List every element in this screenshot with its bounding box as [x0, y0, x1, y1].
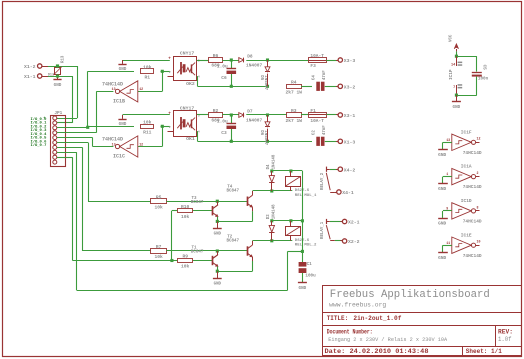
svg-text:D6: D6	[259, 130, 263, 135]
svg-text:13: 13	[112, 87, 116, 91]
svg-text:VCC: VCC	[449, 34, 453, 42]
svg-text:74HC14D: 74HC14D	[463, 184, 482, 190]
svg-text:1N4007: 1N4007	[246, 63, 263, 69]
svg-text:IC1D: IC1D	[461, 198, 472, 204]
svg-text:13: 13	[112, 142, 116, 146]
svg-text:+: +	[168, 57, 171, 62]
svg-text:7: 7	[453, 86, 455, 90]
svg-text:2k7 1W: 2k7 1W	[286, 118, 303, 124]
svg-text:X1-3: X1-3	[344, 140, 356, 146]
svg-text:www.freebus.org: www.freebus.org	[329, 302, 386, 309]
svg-text:GND: GND	[438, 152, 446, 158]
svg-text:14: 14	[451, 63, 455, 67]
svg-text:1N4007: 1N4007	[263, 75, 267, 90]
svg-text:R9: R9	[182, 254, 188, 260]
svg-text:BC847: BC847	[227, 240, 240, 244]
svg-text:C6: C6	[221, 75, 227, 81]
svg-text:D8: D8	[247, 54, 253, 60]
svg-text:10k: 10k	[154, 204, 163, 210]
svg-text:REV:: REV:	[498, 329, 513, 336]
svg-text:REL MOL_1: REL MOL_1	[295, 194, 317, 198]
svg-text:Sheet: 1/1: Sheet: 1/1	[466, 348, 502, 355]
svg-text:100u: 100u	[305, 273, 316, 278]
svg-text:BC847: BC847	[227, 190, 240, 194]
svg-text:C3: C3	[221, 130, 227, 136]
svg-text:100n: 100n	[478, 77, 489, 82]
svg-text:74HC14D: 74HC14D	[463, 253, 482, 259]
svg-text:10A-T: 10A-T	[310, 118, 324, 124]
svg-text:1N4148: 1N4148	[272, 204, 276, 219]
svg-text:11: 11	[446, 241, 450, 245]
svg-text:10k: 10k	[181, 264, 190, 270]
svg-text:X2-1: X2-1	[348, 220, 360, 226]
svg-text:13: 13	[446, 138, 450, 142]
svg-text:F3: F3	[310, 63, 316, 69]
svg-text:10A-T: 10A-T	[310, 53, 324, 59]
svg-text:R10: R10	[181, 204, 190, 210]
svg-text:GND: GND	[54, 83, 62, 88]
svg-text:10k: 10k	[181, 214, 190, 220]
svg-text:4: 4	[198, 130, 200, 133]
svg-text:X2-2: X2-2	[348, 239, 360, 245]
svg-text:2: 2	[477, 171, 479, 175]
svg-text:R5: R5	[156, 194, 162, 200]
svg-text:C1: C1	[307, 262, 313, 267]
svg-text:12: 12	[139, 87, 143, 91]
svg-text:1.0u: 1.0u	[217, 119, 228, 125]
svg-text:BC847: BC847	[191, 201, 204, 205]
svg-text:R4: R4	[291, 80, 297, 86]
svg-text:R7: R7	[156, 244, 162, 250]
svg-text:I/O_0.7: I/O_0.7	[30, 143, 47, 148]
svg-text:CNY17: CNY17	[180, 105, 195, 111]
svg-text:IC1P: IC1P	[449, 69, 454, 80]
svg-text:R1: R1	[145, 75, 151, 81]
svg-text:Eingang 2 x 230V / Relais 2: Eingang 2 x 230V / Relais 2 x 230V 10A	[328, 336, 447, 343]
svg-text:Date: 24.02.2010 01:43:48: Date: 24.02.2010 01:43:48	[325, 348, 429, 355]
svg-text:X1-1: X1-1	[24, 74, 36, 80]
svg-text:1N4148: 1N4148	[272, 154, 276, 169]
svg-text:C4: C4	[313, 75, 317, 80]
svg-text:X1-2: X1-2	[24, 64, 36, 70]
svg-text:2: 2	[169, 71, 171, 74]
svg-text:1N4007: 1N4007	[246, 118, 263, 124]
svg-text:C5: C5	[481, 65, 486, 71]
svg-text:2: 2	[169, 126, 171, 129]
svg-text:X4-2: X4-2	[344, 167, 356, 173]
svg-text:D13: D13	[48, 73, 54, 77]
svg-text:10k: 10k	[143, 120, 152, 126]
svg-text:F1: F1	[310, 108, 316, 114]
svg-text:CNY17: CNY17	[180, 50, 195, 56]
svg-text:TITLE:: TITLE:	[327, 315, 349, 322]
svg-text:D2: D2	[267, 214, 271, 219]
svg-text:1: 1	[446, 172, 448, 176]
svg-text:R3: R3	[291, 108, 297, 114]
svg-text:IC1B: IC1B	[113, 98, 125, 104]
svg-text:D4: D4	[267, 164, 271, 169]
svg-text:+: +	[168, 112, 171, 117]
svg-text:GND: GND	[453, 105, 461, 110]
svg-text:12: 12	[139, 142, 143, 146]
svg-text:X3-1: X3-1	[344, 113, 356, 119]
svg-text:C2: C2	[313, 130, 317, 135]
svg-text:X4-1: X4-1	[342, 190, 354, 196]
svg-text:47nF: 47nF	[323, 125, 327, 135]
svg-text:RELAY_2: RELAY_2	[321, 172, 325, 190]
svg-text:1N4007: 1N4007	[263, 130, 267, 145]
svg-text:GND: GND	[214, 233, 222, 237]
svg-text:X3-2: X3-2	[344, 85, 356, 91]
svg-text:JP1: JP1	[54, 111, 62, 116]
svg-text:1.0f: 1.0f	[498, 336, 512, 343]
svg-text:RELAY_1: RELAY_1	[321, 221, 325, 239]
svg-text:R2: R2	[213, 108, 219, 114]
svg-text:10k: 10k	[143, 65, 152, 71]
svg-text:IC1F: IC1F	[461, 129, 472, 135]
svg-text:12: 12	[477, 137, 481, 141]
svg-text:10k: 10k	[154, 254, 163, 260]
svg-text:GND: GND	[438, 186, 446, 192]
svg-text:OK1: OK1	[186, 136, 195, 142]
svg-text:47nF: 47nF	[323, 70, 327, 80]
svg-text:IC1A: IC1A	[461, 164, 472, 170]
svg-text:D5: D5	[259, 75, 263, 80]
svg-text:R13: R13	[62, 55, 66, 63]
svg-text:R11: R11	[143, 130, 152, 136]
svg-text:X3-3: X3-3	[344, 58, 356, 64]
svg-text:OK2: OK2	[186, 81, 195, 87]
svg-text:2in-2out_1.0f: 2in-2out_1.0f	[353, 315, 401, 322]
svg-text:IC1C: IC1C	[113, 153, 125, 159]
svg-text:R6: R6	[213, 53, 219, 59]
svg-text:2k7 1W: 2k7 1W	[286, 90, 303, 96]
svg-text:IC1E: IC1E	[461, 232, 472, 238]
svg-text:GND: GND	[214, 282, 222, 286]
svg-text:BC847: BC847	[191, 251, 204, 255]
svg-text:8: 8	[477, 205, 479, 209]
svg-text:Freebus Applikationsboard: Freebus Applikationsboard	[330, 289, 490, 301]
svg-text:GND: GND	[438, 255, 446, 261]
svg-text:1.0u: 1.0u	[217, 64, 228, 70]
svg-text:D7: D7	[247, 109, 253, 115]
svg-text:10: 10	[477, 240, 481, 244]
svg-text:74HC14D: 74HC14D	[463, 219, 482, 225]
svg-text:74HC14D: 74HC14D	[463, 150, 482, 156]
svg-text:Document Number:: Document Number:	[327, 329, 373, 336]
svg-text:REL MOL_2: REL MOL_2	[295, 244, 317, 248]
svg-text:4: 4	[198, 75, 200, 78]
svg-text:GND: GND	[438, 221, 446, 227]
svg-text:GND: GND	[299, 286, 307, 291]
svg-text:9: 9	[446, 207, 448, 211]
